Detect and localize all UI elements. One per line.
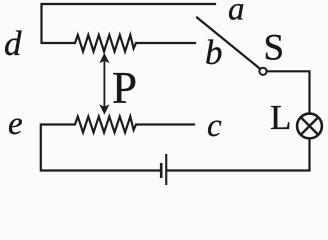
svg-text:P: P [112,63,137,113]
svg-text:c: c [207,108,222,144]
svg-text:L: L [270,98,291,137]
svg-text:d: d [4,24,22,63]
svg-text:b: b [205,33,223,72]
svg-text:a: a [228,0,245,28]
svg-text:e: e [8,106,23,142]
svg-text:S: S [264,27,285,68]
